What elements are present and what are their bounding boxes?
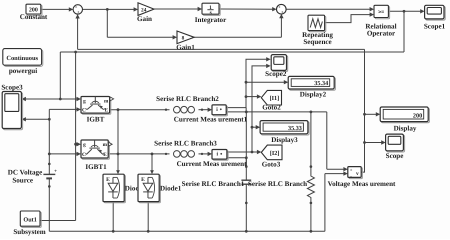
svg-text:Current Meas urement1: Current Meas urement1 [174, 115, 248, 123]
display2 block [288, 76, 335, 90]
current measurement block [212, 150, 228, 161]
svg-text:>=: >= [378, 9, 384, 15]
wire battery line to Scope3 input 2 [22, 117, 51, 121]
svg-text:Scope: Scope [386, 152, 404, 160]
svg-text:35.33: 35.33 [288, 125, 302, 132]
series RLC branch resistor [307, 175, 314, 200]
label Subsystem [13, 228, 45, 236]
svg-text:g: g [83, 142, 86, 148]
wire Sum1 output to Gain with junction [83, 7, 139, 11]
wire Diode1 bottom to ground bus [147, 202, 149, 232]
svg-text:Scope3: Scope3 [1, 83, 23, 91]
wire to Scope block [365, 140, 386, 144]
svg-text:Display2: Display2 [300, 91, 327, 99]
wire gate drop to IGBT1 g and Out1 [40, 52, 81, 221]
label Current Meas urement1 [174, 115, 248, 123]
svg-text:Subsystem: Subsystem [13, 228, 45, 236]
wire V plus input [327, 112, 348, 171]
label Voltage Meas urement [328, 180, 396, 188]
svg-text:Goto2: Goto2 [262, 104, 281, 112]
wire to Goto2 [246, 94, 261, 98]
wire to Display block [365, 112, 381, 116]
label Scope [386, 152, 404, 160]
wire to Diode1 top [150, 154, 154, 174]
wire bridge midpoint vertical to Diode [116, 110, 120, 174]
wire Gain1 to Sum2 bottom input [194, 14, 283, 37]
wire V minus input [325, 171, 348, 231]
svg-text:Display3: Display3 [271, 136, 298, 144]
wire gate drop to IGBT g and Scope3 [22, 52, 81, 101]
svg-text:Display: Display [394, 124, 417, 132]
svg-text:m: m [104, 99, 109, 105]
svg-text:+: + [54, 169, 57, 174]
wire Diode bottom to ground bus [112, 202, 114, 232]
wire gate bus from RelOp junction down and left [60, 11, 404, 53]
svg-text:Voltage Meas urement: Voltage Meas urement [328, 180, 396, 188]
resistor branch vertical top [310, 112, 313, 175]
wire to Display2 [246, 80, 288, 84]
scope block Scope1 [425, 5, 446, 20]
svg-text:Integrator: Integrator [195, 16, 227, 24]
label Scope1 [424, 22, 446, 30]
label IGBT [87, 116, 105, 124]
goto2 block [261, 90, 281, 105]
resistor branch vertical bottom [310, 200, 313, 232]
label Display2 [300, 91, 327, 99]
goto3 block [261, 145, 282, 160]
svg-text:v: v [356, 171, 359, 177]
wire RLC Branch3 to Current Measurement [199, 152, 213, 156]
wire battery to IGBT1 C [48, 152, 81, 156]
wire RLC Branch2 to Current Measurement1 [199, 108, 213, 112]
IGBT1 block [81, 140, 112, 159]
svg-text:C: C [82, 107, 86, 113]
label Diode1 [160, 184, 182, 192]
label Display3 [271, 136, 298, 144]
series RLC branch3 inductor [174, 151, 195, 158]
label DC Voltage Source [8, 169, 42, 185]
svg-text:g: g [83, 99, 86, 105]
ground bus wire along bottom [49, 230, 325, 233]
label Goto2 [262, 104, 281, 112]
svg-text:24: 24 [141, 7, 147, 13]
svg-text:IGBT1: IGBT1 [85, 163, 107, 171]
wire junction down to Gain1 [107, 9, 177, 39]
DC voltage source battery symbol [43, 169, 57, 182]
label Current Meas urement [177, 160, 248, 168]
label Serise RLC Branch2 [156, 95, 219, 103]
wire battery plus up to IGBT C [48, 107, 81, 169]
svg-text:m: m [103, 142, 108, 148]
label Display [394, 124, 417, 132]
svg-text:E: E [105, 107, 109, 113]
svg-text:Out1: Out1 [23, 216, 36, 223]
label Goto3 [262, 161, 281, 169]
label Diode [125, 184, 143, 192]
scope block Scope [386, 134, 405, 152]
IGBT block [81, 97, 114, 115]
label Scope2 [265, 70, 287, 78]
label Serise RLC Branch3 [154, 140, 217, 148]
svg-text:Scope1: Scope1 [424, 22, 446, 30]
label Gain [137, 15, 152, 23]
current measurement1 block [212, 105, 227, 116]
svg-text:Serise RLC Branch3: Serise RLC Branch3 [154, 140, 217, 148]
constant block 200 [26, 4, 42, 15]
capacitor branch vertical [245, 112, 248, 231]
wire Repeating Sequence to Relational Operator input 2 [325, 12, 374, 22]
svg-text:+: + [350, 168, 353, 173]
label Repeating Sequence [302, 31, 333, 46]
wire voltage feedback bus to Sum1 bottom [75, 14, 364, 49]
series RLC branch2 inductor [174, 106, 195, 113]
svg-text:Serise RLC Branch2: Serise RLC Branch2 [156, 95, 219, 103]
svg-text:Sequence: Sequence [303, 38, 331, 46]
wire Sum2 to Relational Operator input 1 [286, 7, 374, 11]
svg-text:C: C [82, 152, 86, 158]
svg-text:Constant: Constant [20, 13, 48, 21]
scope block Scope2 [271, 55, 287, 72]
Diode block [103, 174, 125, 203]
gain block Gain 24 [138, 3, 154, 16]
label IGBT1 [85, 163, 107, 171]
wire IGBT1 E to Series RLC Branch3 and junctions [108, 153, 169, 156]
svg-text:Continuous: Continuous [6, 55, 38, 62]
gain block Gain1 [177, 31, 194, 44]
svg-text:powergui: powergui [9, 67, 37, 75]
label Scope3 [1, 83, 23, 91]
display3 block [260, 121, 309, 135]
label Gain1 [176, 43, 195, 51]
wire to Display3 [252, 125, 260, 129]
load node wire from Current Measurement1 to V+ column [226, 111, 327, 114]
sum block Sum1 [73, 5, 82, 15]
powergui block [3, 49, 43, 67]
svg-text:35.34: 35.34 [314, 80, 328, 87]
svg-text:Current Meas urement: Current Meas urement [177, 160, 248, 168]
svg-text:Serise RLC Branch: Serise RLC Branch [248, 180, 307, 188]
svg-text:[I1]: [I1] [270, 95, 280, 102]
wire connector at capacitor junction [245, 108, 247, 112]
label Serise RLC Branch1 [182, 180, 245, 188]
repeating sequence block [308, 15, 326, 32]
svg-text:Scope2: Scope2 [265, 70, 287, 78]
svg-text:Serise RLC Branch1: Serise RLC Branch1 [182, 180, 245, 188]
svg-text:Goto3: Goto3 [262, 161, 281, 169]
wire Current Measurement i output to Goto3 and up to Scope2 input2 [227, 64, 271, 155]
svg-text:DC Voltage: DC Voltage [8, 169, 42, 177]
label Integrator [195, 16, 227, 24]
wire Voltage Measurement output up to Display Scope and bus [361, 49, 366, 172]
out1 block [20, 211, 41, 227]
wire IGBT E to Series RLC Branch2 and junction [110, 108, 170, 111]
scope block Scope3 [2, 92, 22, 130]
label Serise RLC Branch [248, 180, 307, 188]
label powergui [9, 67, 37, 75]
sum block Sum2 [277, 4, 287, 14]
wire Integrator to Sum2 [219, 7, 277, 11]
svg-text:E: E [141, 177, 145, 183]
wire Gain to Integrator [154, 7, 202, 11]
svg-text:200: 200 [413, 113, 422, 120]
svg-text:Diode1: Diode1 [160, 184, 182, 192]
svg-text:E: E [103, 152, 107, 158]
label Constant [20, 13, 48, 21]
svg-text:[I2]: [I2] [270, 150, 280, 157]
label Relational Operator [365, 22, 396, 37]
svg-text:Source: Source [12, 176, 33, 184]
svg-text:Gain1: Gain1 [176, 43, 195, 51]
wire Current Measurement phys output to capacitor branch [227, 156, 248, 166]
voltage measurement block [348, 167, 363, 179]
Diode1 block [138, 174, 160, 203]
display block 200 [380, 107, 429, 123]
wire battery minus down to ground bus [48, 183, 51, 232]
svg-text:8: 8 [182, 36, 185, 42]
svg-text:+: + [77, 10, 80, 15]
svg-text:Gain: Gain [137, 15, 152, 23]
svg-text:E: E [106, 177, 110, 183]
svg-text:+: + [281, 9, 284, 14]
wire Current Measurement1 i output up to Scope2 input1 [226, 57, 270, 108]
relational operator block [374, 5, 390, 18]
wire Relational Operator to Scope1 with junction [388, 9, 424, 13]
series RLC branch1 capacitor [241, 180, 251, 184]
integrator block [202, 3, 220, 16]
svg-text:Operator: Operator [367, 29, 395, 37]
wire Constant to Sum1 [41, 7, 73, 11]
svg-text:IGBT: IGBT [87, 116, 105, 124]
